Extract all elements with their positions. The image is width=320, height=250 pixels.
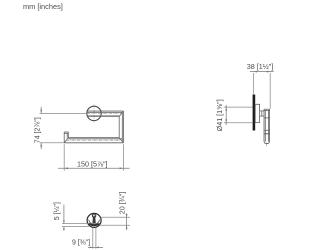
svg-text:20 [¾"]: 20 [¾"] xyxy=(118,192,127,215)
dimension 150 arrows xyxy=(64,167,123,169)
front view bottom bar centerline xyxy=(66,139,121,141)
front view left hook xyxy=(64,132,68,143)
svg-text:150 [5⅞"]: 150 [5⅞"] xyxy=(77,159,108,168)
bottom view bottom band xyxy=(89,223,100,226)
bottom view dimension 20 line xyxy=(126,213,128,230)
dimension 74 line xyxy=(40,107,42,149)
bottom view dimension 9 line xyxy=(88,246,103,248)
bottom view screw shaft xyxy=(92,217,95,223)
side view dimension 41 extension lines xyxy=(224,107,253,123)
front view bar centerline dash xyxy=(87,113,122,115)
side view dimension 38 line xyxy=(250,71,274,73)
bottom view dimension 20 extension lines xyxy=(100,217,130,225)
dimension 150 extension lines xyxy=(64,144,123,171)
side view down tube xyxy=(264,109,270,146)
bottom view dimension 5 extension lines xyxy=(62,224,89,227)
bottom view dimension 9 extension lines xyxy=(93,228,96,249)
bottom view dimension 5 arrows xyxy=(63,220,65,229)
bottom view dimension 20 arrows xyxy=(126,214,128,229)
bottom view screw head circle xyxy=(92,214,95,217)
bottom view flange right line xyxy=(96,220,100,224)
svg-text:Ø41 [1⅝"]: Ø41 [1⅝"] xyxy=(215,99,224,131)
side view dimension 41 line xyxy=(225,105,227,125)
front view rosette vertical centerline xyxy=(93,105,95,122)
side view dimension 38 arrows xyxy=(254,71,271,73)
svg-text:74 [2⅞"]: 74 [2⅞"] xyxy=(34,117,41,143)
svg-text:38 [1½"]: 38 [1½"] xyxy=(247,62,274,71)
dimension 150 line xyxy=(58,167,130,169)
dimension 74 arrows xyxy=(40,110,42,147)
side view dimension 38 extension lines xyxy=(254,73,271,109)
bottom view screw head dot xyxy=(93,215,95,217)
side view dimension 41 arrows xyxy=(225,107,227,123)
front view top bar xyxy=(87,111,123,117)
bottom view flange left line xyxy=(89,220,93,224)
svg-text:5 [¼"]: 5 [¼"] xyxy=(54,202,61,220)
side view arm xyxy=(260,111,264,116)
side view rosette xyxy=(255,104,259,122)
bottom view circle xyxy=(87,213,101,227)
front view right arm xyxy=(119,111,123,143)
front view rosette circle xyxy=(87,106,101,120)
svg-text:mm [inches]: mm [inches] xyxy=(23,2,63,11)
svg-text:9 [⅜"]: 9 [⅜"] xyxy=(72,239,90,246)
bottom view dimension 5 line xyxy=(63,205,65,231)
bottom view dimension 9 arrows xyxy=(90,247,99,249)
front view horizontal centerline / extension to 74 dim xyxy=(40,112,87,114)
side view wall plate xyxy=(253,95,256,131)
dimension 74 extension bottom xyxy=(40,142,65,144)
front view bottom bar xyxy=(64,138,123,143)
